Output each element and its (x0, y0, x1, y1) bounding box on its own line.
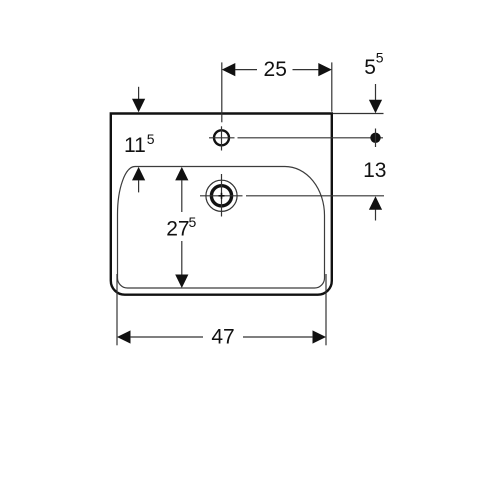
dim 25: extension line right (331, 62, 333, 111)
dim 47: extension line right (325, 274, 327, 345)
dim 25: right arrow (318, 63, 332, 76)
svg-text:47: 47 (211, 325, 234, 348)
dim 11.5: down arrow above top edge (138, 87, 140, 100)
dim 25: line segments (235, 69, 257, 71)
dim 27.5: down arrow (175, 275, 188, 289)
drain crosshair horizontal (200, 195, 243, 197)
dim 13: up arrow (369, 196, 382, 210)
svg-text:25: 25 (264, 58, 287, 81)
dot marker (370, 133, 380, 143)
outer basin outline (111, 114, 332, 295)
svg-text:5: 5 (364, 56, 376, 79)
svg-text:5: 5 (147, 131, 155, 147)
dim 11.5: up arrow at inner line (132, 167, 145, 181)
svg-text:13: 13 (363, 159, 386, 182)
dim 47: left arrow (117, 330, 131, 343)
dim 27.5: up arrow (175, 167, 188, 181)
svg-text:27: 27 (166, 217, 189, 240)
faucet crosshair horizontal (209, 137, 235, 139)
inner bowl outline (118, 167, 325, 289)
svg-text:11: 11 (124, 134, 146, 157)
drain leader line right (246, 195, 384, 197)
drain crosshair vertical (221, 174, 223, 217)
drain center cross (219, 195, 225, 197)
dim 47: right arrow (313, 330, 327, 343)
dim 25: extension line left (221, 62, 223, 122)
faucet center leader line to dot (238, 137, 384, 139)
dim 47: extension line left (116, 274, 118, 345)
drain hole outer (206, 180, 237, 211)
faucet hole (214, 130, 229, 145)
dim 25: left arrow (222, 63, 236, 76)
top edge extension line right (333, 113, 384, 115)
dim 47: line segments (130, 336, 203, 338)
drain hole inner (211, 186, 231, 206)
svg-text:5: 5 (376, 50, 384, 66)
dim 27.5: line segments (181, 180, 183, 212)
svg-text:5: 5 (189, 214, 197, 230)
faucet crosshair vertical (221, 126, 223, 150)
dim 5.5: down arrow (375, 84, 377, 100)
